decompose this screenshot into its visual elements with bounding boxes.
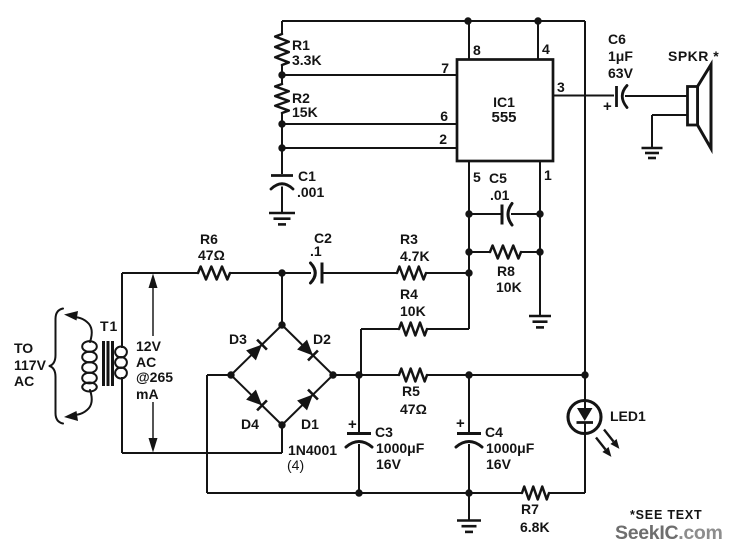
svg-text:R4: R4 xyxy=(400,286,418,302)
svg-text:6: 6 xyxy=(440,108,448,124)
svg-text:(4): (4) xyxy=(287,457,304,473)
svg-text:10K: 10K xyxy=(496,279,522,295)
svg-text:5: 5 xyxy=(473,169,481,185)
svg-text:1N4001: 1N4001 xyxy=(288,442,337,458)
svg-text:15K: 15K xyxy=(292,104,318,120)
svg-text:C1: C1 xyxy=(298,168,316,184)
svg-text:R3: R3 xyxy=(400,231,418,247)
svg-text:4.7K: 4.7K xyxy=(400,248,430,264)
svg-text:+: + xyxy=(603,98,612,115)
svg-text:16V: 16V xyxy=(376,456,402,472)
svg-text:R5: R5 xyxy=(402,383,420,399)
svg-text:R1: R1 xyxy=(292,37,310,53)
svg-text:555: 555 xyxy=(491,109,516,126)
svg-text:+: + xyxy=(348,416,357,433)
svg-text:16V: 16V xyxy=(486,456,512,472)
svg-text:2: 2 xyxy=(439,131,447,147)
svg-text:C6: C6 xyxy=(608,31,626,47)
svg-text:1000μF: 1000μF xyxy=(486,440,535,456)
svg-text:47Ω: 47Ω xyxy=(400,401,427,417)
svg-text:D2: D2 xyxy=(313,331,331,347)
svg-text:D4: D4 xyxy=(241,416,259,432)
svg-text:+: + xyxy=(456,415,465,432)
svg-text:7: 7 xyxy=(441,60,449,76)
svg-text:12V: 12V xyxy=(136,338,162,354)
svg-text:.1: .1 xyxy=(310,243,322,259)
svg-text:AC: AC xyxy=(136,354,156,370)
svg-text:6.8K: 6.8K xyxy=(520,519,550,535)
svg-text:R8: R8 xyxy=(497,263,515,279)
svg-text:C3: C3 xyxy=(375,424,393,440)
svg-text:D1: D1 xyxy=(301,416,319,432)
svg-text:D3: D3 xyxy=(229,331,247,347)
svg-text:4: 4 xyxy=(542,41,550,57)
svg-text:R6: R6 xyxy=(200,231,218,247)
svg-text:TO: TO xyxy=(14,340,33,356)
svg-text:LED1: LED1 xyxy=(610,408,646,424)
svg-text:10K: 10K xyxy=(400,303,426,319)
svg-text:1: 1 xyxy=(544,167,552,183)
svg-text:3.3K: 3.3K xyxy=(292,52,322,68)
svg-text:SeekIC.com: SeekIC.com xyxy=(615,522,723,544)
svg-text:C5: C5 xyxy=(489,170,507,186)
svg-text:mA: mA xyxy=(136,386,159,402)
svg-text:.01: .01 xyxy=(490,187,510,203)
svg-text:1μF: 1μF xyxy=(608,48,633,64)
svg-text:63V: 63V xyxy=(608,65,634,81)
svg-text:C4: C4 xyxy=(485,424,503,440)
svg-text:AC: AC xyxy=(14,373,34,389)
svg-text:.001: .001 xyxy=(297,184,324,200)
svg-text:*SEE TEXT: *SEE TEXT xyxy=(630,508,703,522)
svg-text:IC1: IC1 xyxy=(493,94,515,110)
svg-text:8: 8 xyxy=(473,42,481,58)
svg-text:T1: T1 xyxy=(100,318,118,334)
svg-text:3: 3 xyxy=(557,79,565,95)
svg-text:R7: R7 xyxy=(521,501,539,517)
svg-text:1000μF: 1000μF xyxy=(376,440,425,456)
svg-text:@265: @265 xyxy=(136,369,173,385)
svg-text:47Ω: 47Ω xyxy=(198,247,225,263)
svg-text:117V: 117V xyxy=(14,357,47,373)
